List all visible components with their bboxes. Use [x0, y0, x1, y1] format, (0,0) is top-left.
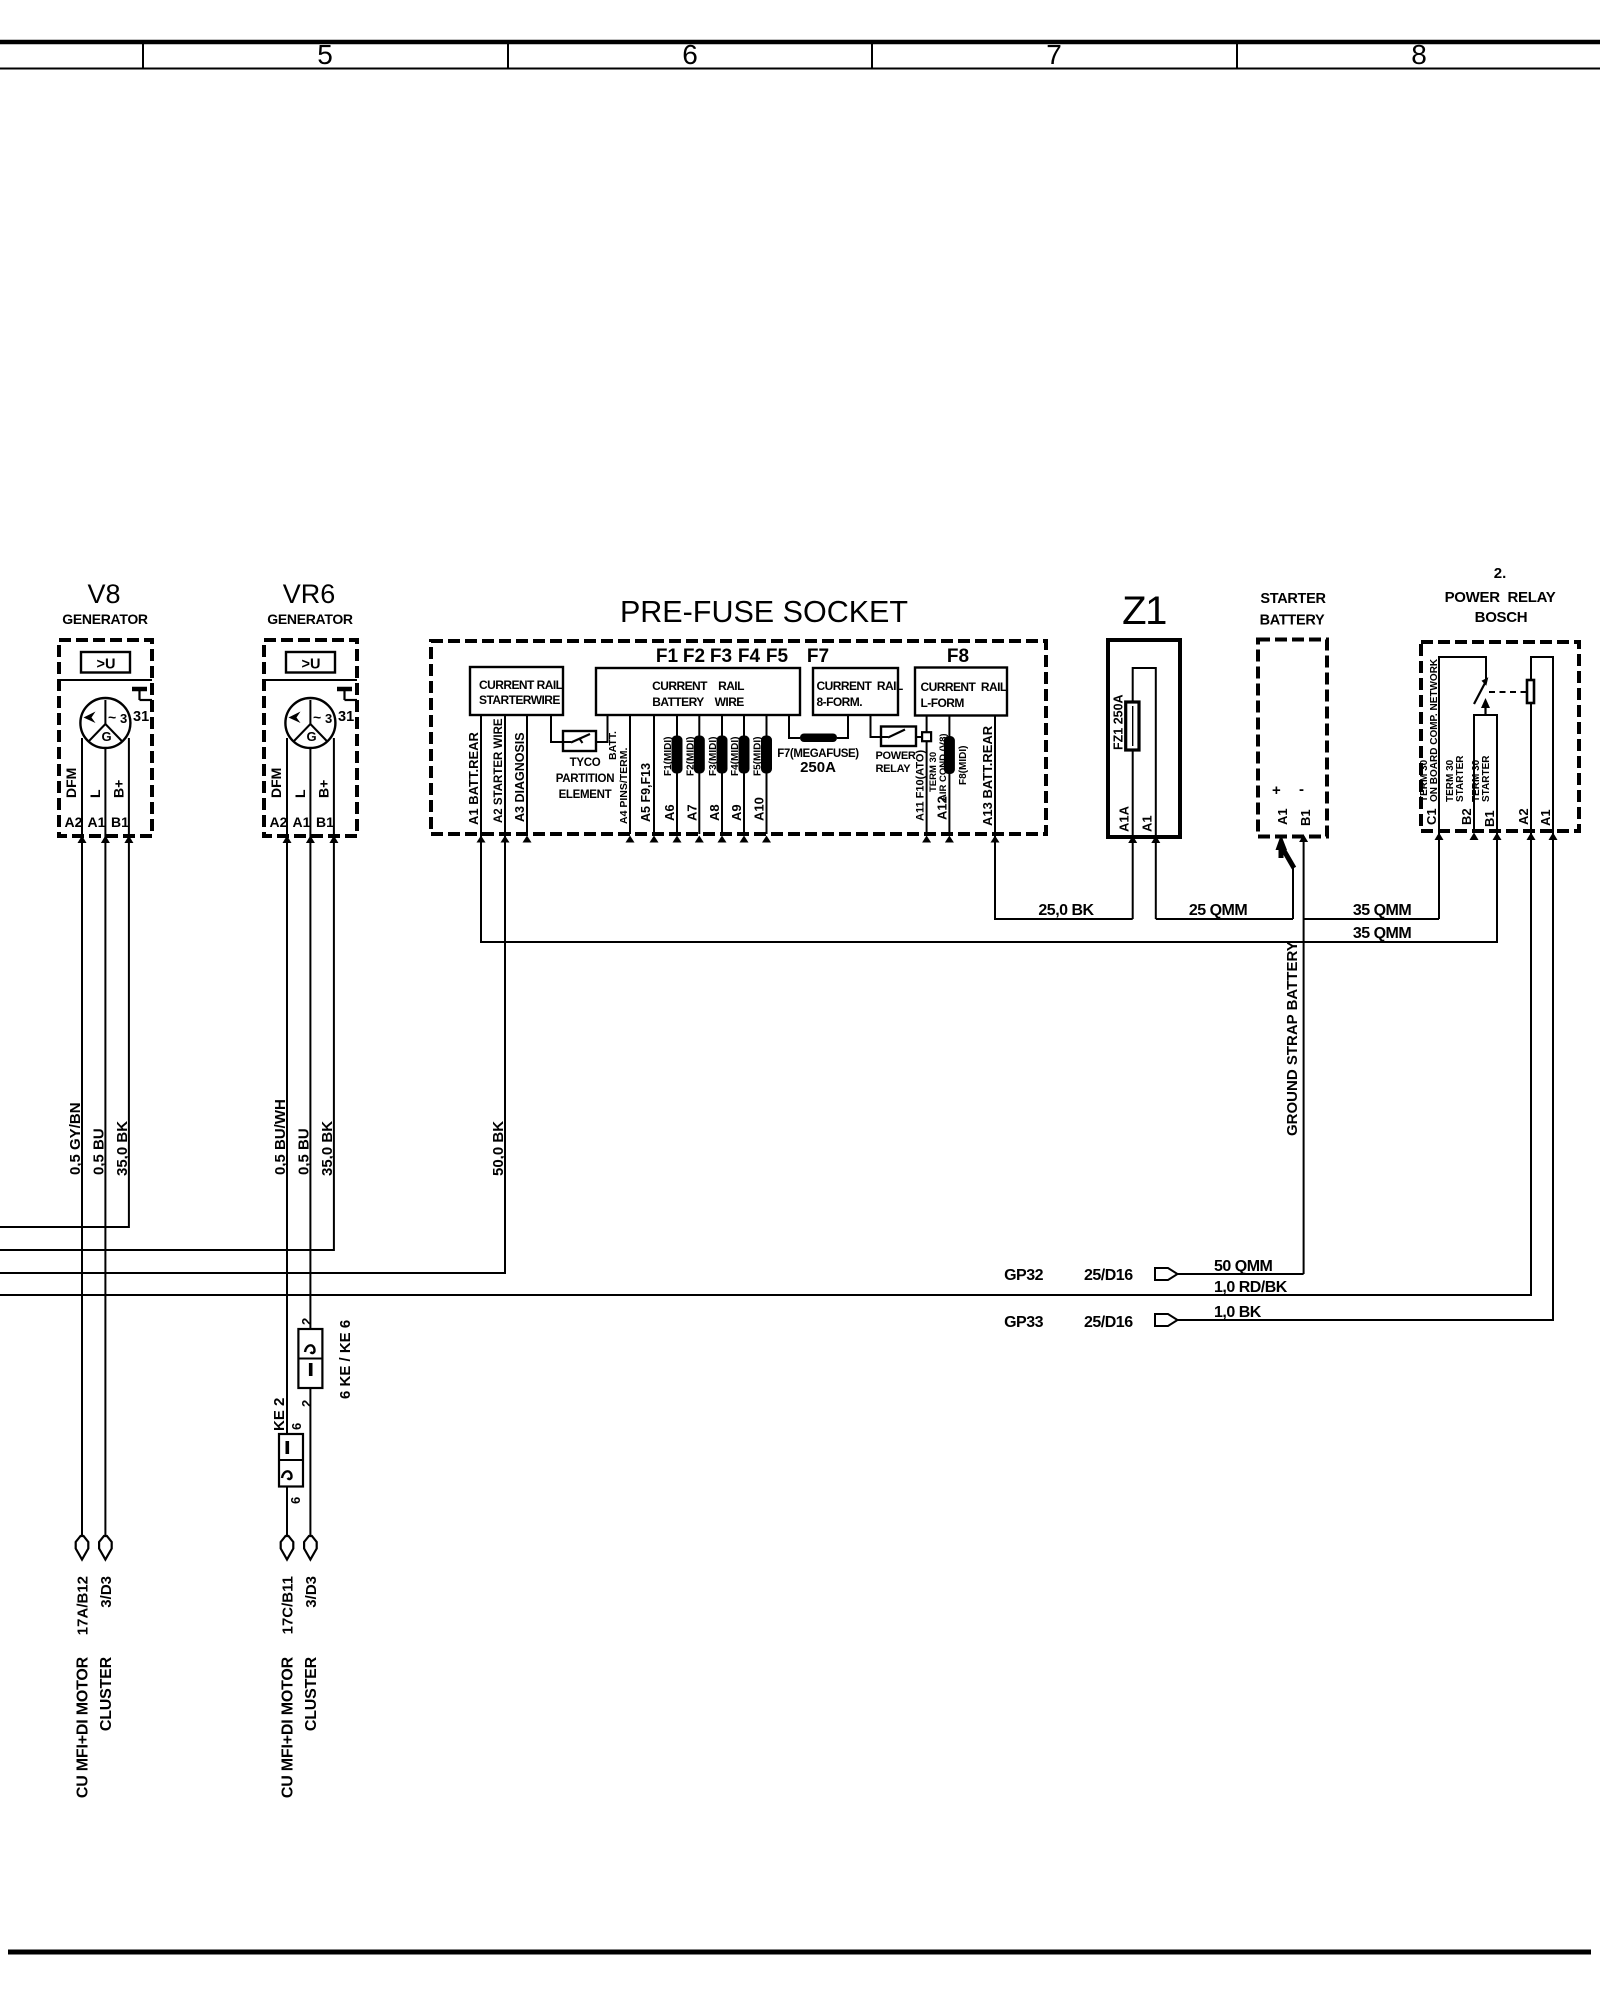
fuse F5 MIDI on pin A10	[761, 736, 772, 774]
svg-text:~: ~	[108, 709, 116, 725]
relay pin C1	[1424, 808, 1444, 840]
svg-text:2.: 2.	[1494, 565, 1507, 582]
wire socket pin A11	[922, 716, 931, 843]
svg-text:3/D3: 3/D3	[303, 1576, 320, 1608]
current rail 8-form box	[813, 668, 903, 715]
svg-text:BOSCH: BOSCH	[1475, 609, 1528, 626]
wire socket pin A2	[501, 715, 510, 843]
svg-text:STARTERTERM 30: STARTERTERM 30	[1445, 755, 1466, 802]
socket pin label A1 BATT.REAR	[466, 731, 481, 825]
power relay bosch box	[1421, 642, 1579, 831]
wire socket pin A12	[945, 716, 954, 843]
svg-text:B2: B2	[1459, 808, 1474, 825]
svg-text:31: 31	[133, 709, 149, 725]
wire to tyco partition element	[551, 715, 563, 742]
svg-text:KE 2: KE 2	[271, 1398, 288, 1431]
destination reference 3/D3	[98, 1576, 115, 1608]
ruler tick 3	[871, 42, 873, 69]
border ruler bottom line	[0, 68, 1600, 70]
svg-text:A1: A1	[88, 814, 106, 830]
wire label 50 QMM	[1214, 1258, 1273, 1275]
svg-text:B+: B+	[111, 780, 127, 798]
svg-text:F4(MIDI): F4(MIDI)	[730, 737, 741, 776]
fuse label F3(MIDI)	[708, 737, 719, 776]
svg-text:A8: A8	[707, 804, 722, 821]
svg-text:A12: A12	[934, 796, 949, 820]
svg-text:31: 31	[338, 709, 354, 725]
svg-text:17C/B11: 17C/B11	[280, 1576, 297, 1634]
connector 6KE pin 2 upper	[299, 1318, 314, 1325]
svg-text:A11 F10(ATO): A11 F10(ATO)	[915, 750, 927, 821]
svg-text:~: ~	[313, 709, 321, 725]
generator VR6 divider line	[264, 679, 357, 681]
wire label 25,0 BK	[1038, 902, 1094, 919]
pre-fuse socket box	[431, 641, 1046, 834]
wire label 35 QMM lower	[1353, 925, 1412, 942]
Z1 pin A1A	[1117, 805, 1138, 843]
svg-text:A7: A7	[684, 804, 699, 821]
wire battery B1 ground strap	[1299, 835, 1308, 1275]
ruler label 8	[1411, 39, 1427, 70]
wire VR6 A2 down	[286, 836, 288, 1537]
battery pin B1	[1298, 809, 1313, 826]
svg-text:0,5 BU: 0,5 BU	[295, 1128, 312, 1175]
generator VR6 label L	[292, 789, 308, 798]
destination reference 17A/B12	[75, 1576, 92, 1635]
wire Z1 A1A down	[1132, 837, 1134, 919]
svg-text:A10: A10	[752, 797, 767, 821]
svg-text:6: 6	[682, 39, 698, 70]
svg-text:B1: B1	[1298, 809, 1313, 826]
wire 25 QMM Z1 A1 to battery A1	[1156, 918, 1293, 920]
wire label 25 QMM	[1189, 902, 1248, 919]
generator V8 symbol circle	[80, 698, 130, 748]
current rail L-form box	[915, 668, 1007, 716]
relay throw arrow	[1481, 698, 1490, 714]
wire 25,0 BK A13 to Z1 A1A	[995, 834, 1133, 919]
generator VR6 overvoltage unit box	[286, 652, 335, 673]
wire V8 A1 down	[104, 836, 106, 1537]
svg-text:50 QMM: 50 QMM	[1214, 1258, 1273, 1275]
fuse label F4(MIDI)	[730, 737, 741, 776]
svg-text:2: 2	[299, 1318, 314, 1325]
destination reference 3/D3	[303, 1576, 320, 1608]
fuse label F4	[738, 646, 761, 667]
svg-text:17A/B12: 17A/B12	[75, 1576, 92, 1635]
wire socket pin A6	[673, 715, 682, 843]
wire socket pin A7	[695, 715, 704, 843]
svg-text:A2: A2	[65, 814, 83, 830]
Z1 internal wire A1A to A1	[1133, 668, 1156, 836]
wire Z1 A1 down	[1155, 837, 1157, 919]
socket pin label A4 BATT. PINS/TERM.	[607, 731, 630, 824]
generator VR6 label DFM	[268, 768, 284, 798]
ruler tick 2	[507, 42, 509, 69]
relay actuation dashed link	[1489, 691, 1526, 693]
wire label 35,0 BK V8	[114, 1121, 131, 1176]
wire 1,0 RD/BK left edge to relay A2	[0, 831, 1531, 1295]
fuse label F7	[807, 646, 829, 667]
svg-text:PRE-FUSE SOCKET: PRE-FUSE SOCKET	[620, 595, 908, 629]
wire socket pin A10	[762, 715, 771, 843]
socket pin label A6	[662, 804, 677, 821]
generator V8 terminal 31 ground symbol	[132, 689, 152, 725]
svg-text:G: G	[102, 729, 112, 744]
wire VR6 A1 down	[309, 836, 311, 1537]
ruler label 6	[682, 39, 698, 70]
svg-text:0,5 BU/WH: 0,5 BU/WH	[272, 1099, 289, 1175]
socket pin label A7	[684, 804, 699, 821]
wire socket A2 50,0 BK to left edge	[0, 834, 505, 1273]
relay pin B2 label TERM 30 STARTER	[1445, 755, 1466, 802]
generator V8 pin A1	[88, 814, 110, 843]
svg-text:L: L	[87, 789, 103, 798]
current rail battery wire box	[596, 668, 800, 715]
wire 8-form rail to power relay	[871, 715, 882, 737]
svg-text:F3(MIDI): F3(MIDI)	[708, 737, 719, 776]
svg-text:6 KE / KE 6: 6 KE / KE 6	[337, 1320, 354, 1399]
generator V8 label L	[87, 789, 103, 798]
fuse F8 MIDI on pin A12	[944, 736, 955, 774]
svg-text:CURRENT RAIL: CURRENT RAIL	[652, 679, 744, 693]
svg-text:35,0 BK: 35,0 BK	[114, 1121, 131, 1176]
svg-text:FZ1 250A: FZ1 250A	[1112, 694, 1126, 750]
label ground strap battery	[1284, 941, 1301, 1136]
wire socket pin A13	[991, 716, 1000, 843]
svg-text:35 QMM: 35 QMM	[1353, 925, 1412, 942]
fuse label F2(MIDI)	[685, 737, 696, 776]
svg-text:GROUND STRAP BATTERY: GROUND STRAP BATTERY	[1284, 941, 1301, 1136]
svg-text:0,5 GY/BN: 0,5 GY/BN	[67, 1102, 84, 1175]
Z1 pin A1	[1140, 815, 1161, 843]
generator V8 pin B1	[111, 814, 133, 843]
generator V8 overvoltage unit box	[81, 652, 130, 673]
wire label 0,5 BU/WH	[272, 1099, 289, 1175]
svg-text:F1(MIDI): F1(MIDI)	[663, 737, 674, 776]
generator VR6 symbol circle	[285, 698, 335, 748]
fuse label F2	[683, 646, 705, 667]
megafuse F7 250A	[777, 734, 859, 777]
generator V8 pin wire A2	[81, 738, 83, 836]
svg-text:BATTERY WIRE: BATTERY WIRE	[652, 695, 744, 709]
svg-text:A2: A2	[270, 814, 288, 830]
svg-text:-: -	[1299, 781, 1304, 798]
svg-text:6: 6	[289, 1423, 304, 1430]
fuse F2 MIDI on pin A7	[694, 736, 705, 774]
svg-text:A13 BATT.REAR: A13 BATT.REAR	[980, 725, 995, 826]
svg-text:B+: B+	[316, 780, 332, 798]
wire end arrow V8 A2	[76, 1536, 89, 1560]
svg-text:CURRENT RAIL: CURRENT RAIL	[921, 680, 1007, 694]
relay contact path C1	[1439, 657, 1486, 831]
svg-text:A1 BATT.REAR: A1 BATT.REAR	[466, 731, 481, 825]
svg-text:A2: A2	[1516, 808, 1531, 825]
svg-text:F2: F2	[683, 646, 705, 667]
power relay switch in socket	[876, 727, 917, 776]
starter battery box	[1258, 640, 1327, 837]
power relay bosch title	[1445, 565, 1556, 626]
generator V8 pin A2	[65, 814, 87, 843]
wire label 0,5 GY/BN	[67, 1102, 84, 1175]
wire label 35,0 BK VR6	[319, 1121, 336, 1176]
starter battery title	[1260, 591, 1327, 629]
svg-text:A6: A6	[662, 804, 677, 821]
socket pin label A9	[729, 804, 744, 821]
svg-text:1,0 RD/BK: 1,0 RD/BK	[1214, 1279, 1288, 1296]
relay pin B1	[1482, 810, 1502, 840]
svg-text:0,5 BU: 0,5 BU	[90, 1128, 107, 1175]
socket pin label A3 DIAGNOSIS	[513, 732, 527, 822]
relay coil	[1527, 680, 1534, 703]
svg-text:B1: B1	[1482, 810, 1497, 827]
relay A2-A1 path	[1531, 657, 1553, 831]
fuse label F1	[656, 646, 679, 667]
wire power relay to node A11	[916, 736, 923, 738]
svg-text:35,0 BK: 35,0 BK	[319, 1121, 336, 1176]
socket pin label A8	[707, 804, 722, 821]
svg-text:F3: F3	[710, 646, 732, 667]
svg-text:25 QMM: 25 QMM	[1189, 902, 1248, 919]
svg-text:CU MFI+DI MOTOR: CU MFI+DI MOTOR	[280, 1656, 297, 1798]
svg-text:6: 6	[288, 1497, 303, 1504]
svg-text:STARTER: STARTER	[1260, 591, 1326, 607]
svg-text:PARTITION: PARTITION	[556, 773, 614, 785]
svg-text:RELAY: RELAY	[876, 763, 912, 775]
connector label 6 KE / KE 6	[337, 1320, 354, 1399]
socket pin label A12 TERM 30 AIR COND.	[928, 733, 949, 820]
wire socket pin A1	[477, 715, 486, 843]
fuse label F8	[947, 646, 969, 667]
svg-text:L: L	[292, 789, 308, 798]
svg-text:B1: B1	[111, 814, 129, 830]
battery pin A1	[1275, 808, 1290, 825]
ruler label 7	[1046, 39, 1062, 70]
generator VR6 title	[267, 579, 353, 627]
fuse FZ1 250A	[1126, 702, 1139, 750]
fuse label F8(MIDI)	[958, 746, 969, 785]
svg-text:25/D16: 25/D16	[1084, 1267, 1133, 1284]
svg-text:F8: F8	[947, 646, 969, 667]
svg-text:A2 STARTER WIRE: A2 STARTER WIRE	[493, 718, 505, 823]
svg-text:A1: A1	[293, 814, 311, 830]
svg-text:>U: >U	[302, 657, 321, 673]
svg-text:3: 3	[325, 711, 332, 726]
wire label 35 QMM upper	[1353, 902, 1412, 919]
wire V8 A2 down	[81, 836, 83, 1537]
current rail starterwire box	[470, 667, 563, 715]
relay switch blade	[1474, 677, 1488, 704]
svg-text:V8: V8	[87, 579, 120, 609]
svg-text:DFM: DFM	[268, 768, 284, 798]
border ruler top thick line	[0, 40, 1600, 45]
generator VR6 pin B1	[316, 814, 338, 843]
wire socket pin A9	[740, 715, 749, 843]
destination label CLUSTER	[303, 1656, 320, 1731]
generator V8 title	[62, 579, 148, 627]
wire socket pin A4	[626, 715, 635, 843]
generator V8 box	[59, 640, 152, 836]
svg-text:8: 8	[1411, 39, 1427, 70]
destination label CU MFI+DI MOTOR	[280, 1656, 297, 1798]
svg-text:25,0 BK: 25,0 BK	[1038, 902, 1094, 919]
fuse label F3	[710, 646, 732, 667]
fuse label FZ1 250A	[1112, 694, 1126, 750]
svg-text:CLUSTER: CLUSTER	[98, 1656, 115, 1731]
svg-text:A9: A9	[729, 804, 744, 821]
socket pin label A11 F10(ATO)	[915, 750, 927, 821]
svg-text:F2(MIDI): F2(MIDI)	[685, 737, 696, 776]
wire battery A1 with arrow	[1276, 835, 1295, 920]
generator V8 label B+	[111, 780, 127, 798]
relay pin B1 label TERM 30 STARTER	[1471, 755, 1492, 802]
fuse holder Z1 box	[1108, 640, 1180, 837]
svg-text:>U: >U	[97, 657, 116, 673]
relay pin C1 label TERM 30 ON BOARD COMP. NETWORK	[1419, 658, 1440, 802]
generator VR6 label B+	[316, 780, 332, 798]
svg-text:POWER RELAY: POWER RELAY	[1445, 589, 1556, 606]
wire label 1,0 BK	[1214, 1304, 1262, 1321]
svg-text:CU MFI+DI MOTOR: CU MFI+DI MOTOR	[75, 1656, 92, 1798]
svg-text:GP32: GP32	[1004, 1267, 1044, 1284]
ruler tick 4	[1236, 42, 1238, 69]
svg-text:A1A: A1A	[1117, 805, 1132, 832]
connector label KE 2	[271, 1398, 288, 1431]
svg-text:GP33: GP33	[1004, 1314, 1044, 1331]
wire label 0,5 BU VR6	[295, 1128, 312, 1175]
svg-text:BATTERY: BATTERY	[1260, 613, 1325, 629]
generator VR6 box	[264, 640, 357, 836]
svg-text:B1: B1	[316, 814, 334, 830]
relay pin A1	[1538, 809, 1558, 840]
socket pin label A2 STARTER WIRE	[493, 718, 505, 823]
svg-text:F4: F4	[738, 646, 761, 667]
generator VR6 terminal 31 ground symbol	[337, 689, 357, 725]
svg-text:A5 F9,F13: A5 F9,F13	[639, 763, 653, 822]
wire V8 B+ to left edge	[0, 836, 129, 1227]
connector KE 2 pin 6 lower	[288, 1497, 303, 1504]
svg-text:2: 2	[299, 1400, 314, 1407]
wire socket pin A3	[523, 715, 532, 843]
wire end arrow VR6 A2	[281, 1536, 294, 1560]
fuse label F1(MIDI)	[663, 737, 674, 776]
wire megafuse to 8-form rail	[837, 715, 848, 738]
svg-text:STARTERTERM 30: STARTERTERM 30	[1471, 755, 1492, 802]
svg-text:A1: A1	[1275, 808, 1290, 825]
svg-text:C1: C1	[1424, 808, 1439, 825]
fuse label F5	[766, 646, 789, 667]
svg-text:VR6: VR6	[283, 579, 336, 609]
generator VR6 pin wire A2	[286, 738, 288, 836]
svg-text:F7: F7	[807, 646, 829, 667]
generator VR6 pin wire A1	[309, 748, 311, 836]
wire tyco to battery rail	[596, 715, 608, 742]
wire 35 QMM socket A1 to relay B1	[481, 831, 1497, 942]
svg-text:A1: A1	[1538, 809, 1553, 826]
svg-text:3: 3	[120, 711, 127, 726]
connector 6 KE / KE 6 on VR6 A1 wire	[298, 1329, 322, 1388]
wire GP32 50 QMM to ground strap	[1178, 1273, 1304, 1275]
svg-text:L-FORM: L-FORM	[921, 696, 965, 710]
wire label 0,5 BU V8	[90, 1128, 107, 1175]
svg-text:Z1: Z1	[1122, 589, 1166, 633]
svg-text:+: +	[1272, 782, 1281, 799]
wire end arrow VR6 A1	[304, 1536, 317, 1560]
pre-fuse socket title	[620, 595, 908, 629]
generator V8 label DFM	[63, 768, 79, 798]
generator V8 pin wire A1	[104, 748, 106, 836]
connector GP33	[1004, 1314, 1177, 1331]
wire end arrow V8 A1	[99, 1536, 112, 1560]
wire label 50,0 BK	[490, 1121, 507, 1176]
destination reference 17C/B11	[280, 1576, 297, 1634]
svg-text:GENERATOR: GENERATOR	[267, 611, 353, 627]
svg-text:CURRENT RAIL: CURRENT RAIL	[817, 679, 903, 693]
generator VR6 pin A1	[293, 814, 315, 843]
battery plus sign	[1272, 782, 1281, 799]
socket pin label A5 F9,F13	[639, 763, 653, 822]
svg-text:ELEMENT: ELEMENT	[559, 789, 612, 801]
generator V8 divider line	[59, 679, 152, 681]
ruler tick 1	[142, 42, 144, 69]
svg-text:3/D3: 3/D3	[98, 1576, 115, 1608]
svg-text:F5(MIDI): F5(MIDI)	[753, 737, 764, 776]
battery minus sign	[1299, 781, 1304, 798]
socket pin label A10	[752, 797, 767, 821]
svg-text:7: 7	[1046, 39, 1062, 70]
fuse F1 MIDI on pin A6	[672, 736, 683, 774]
connector KE 2 pin 6 upper	[289, 1423, 304, 1430]
bottom page border	[8, 1950, 1591, 1955]
wire socket pin A5	[650, 715, 659, 843]
generator VR6 pin A2	[270, 814, 292, 843]
svg-text:TYCO: TYCO	[570, 757, 601, 769]
fuse F3 MIDI on pin A8	[717, 736, 728, 774]
destination label CU MFI+DI MOTOR	[75, 1656, 92, 1798]
svg-text:CLUSTER: CLUSTER	[303, 1656, 320, 1731]
relay pin B2	[1459, 808, 1479, 840]
connector 6KE pin 2 lower	[299, 1400, 314, 1407]
svg-text:F8(MIDI): F8(MIDI)	[958, 746, 969, 785]
svg-text:50,0 BK: 50,0 BK	[490, 1121, 507, 1176]
svg-text:25/D16: 25/D16	[1084, 1314, 1133, 1331]
svg-text:1,0 BK: 1,0 BK	[1214, 1304, 1262, 1321]
svg-text:DFM: DFM	[63, 768, 79, 798]
svg-text:G: G	[307, 729, 317, 744]
svg-text:35 QMM: 35 QMM	[1353, 902, 1412, 919]
svg-text:250A: 250A	[800, 759, 836, 776]
svg-text:GENERATOR: GENERATOR	[62, 611, 148, 627]
connector GP32	[1004, 1267, 1177, 1284]
wire battery rail to megafuse F7	[789, 715, 800, 738]
svg-text:POWER: POWER	[876, 750, 916, 762]
svg-text:5: 5	[317, 39, 333, 70]
fuse holder Z1 title	[1122, 589, 1166, 633]
wire VR6 B+ to left edge	[0, 836, 334, 1250]
generator V8 pin wire B1	[128, 738, 130, 836]
tyco partition element switch	[556, 731, 614, 801]
generator VR6 pin wire B1	[333, 738, 335, 836]
socket pin label A13 BATT.REAR	[980, 725, 995, 826]
svg-text:F5: F5	[766, 646, 789, 667]
connector KE 2 on VR6 A2 wire	[279, 1434, 303, 1487]
destination label CLUSTER	[98, 1656, 115, 1731]
svg-text:8-FORM.: 8-FORM.	[817, 695, 863, 709]
relay pin A2	[1516, 808, 1536, 840]
relay B1 throw box	[1474, 715, 1497, 831]
wire label 1,0 RD/BK	[1214, 1279, 1288, 1296]
ruler label 5	[317, 39, 333, 70]
fuse F4 MIDI on pin A9	[739, 736, 750, 774]
